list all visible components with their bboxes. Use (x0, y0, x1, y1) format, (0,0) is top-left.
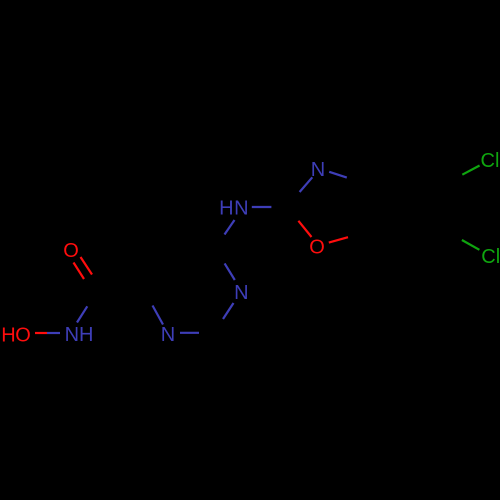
svg-text:N: N (234, 282, 248, 304)
wire C6-NH bridge bond blue half (225, 220, 235, 235)
wire N3-C6 bond blue half (225, 263, 235, 280)
wire C=O double bond red halves (74, 257, 93, 279)
svg-text:H: H (79, 324, 93, 346)
wire C5b-Cl1 bond green half (462, 166, 479, 175)
svg-text:O: O (15, 324, 31, 346)
wire O1-C7a bond red half (329, 237, 348, 242)
hydroxamic N label NH (65, 324, 94, 346)
svg-text:Cl: Cl (481, 150, 500, 172)
hydroxyl O label HO (1, 324, 31, 346)
svg-text:N: N (161, 324, 175, 346)
svg-text:O: O (309, 237, 325, 259)
svg-text:H: H (1, 324, 15, 346)
svg-text:N: N (311, 159, 325, 181)
svg-text:N: N (65, 324, 79, 346)
svg-text:N: N (234, 197, 248, 219)
svg-text:H: H (219, 197, 233, 219)
wire C2-N3 oxazole bond blue half (300, 177, 313, 192)
wire C4-N1 bond blue half (153, 306, 164, 325)
wire C2-O1 oxazole bond red half (298, 221, 311, 237)
wire O-N bond blue half (47, 332, 60, 334)
wire N-C(=O) bond blue half (77, 306, 87, 322)
svg-text:O: O (63, 240, 79, 262)
wire N1-C2 bond blue half (180, 332, 199, 334)
wire C2-N3 bond blue half (223, 303, 234, 319)
wire O-N bond red half (35, 332, 47, 334)
wire C6b-Cl2 bond green half (462, 240, 480, 250)
wire NH-C2oxazole bond blue half (252, 206, 272, 208)
svg-text:Cl: Cl (481, 246, 500, 268)
bridge amine label HN (219, 197, 248, 219)
wire N3-C3a bond blue half (329, 172, 347, 178)
